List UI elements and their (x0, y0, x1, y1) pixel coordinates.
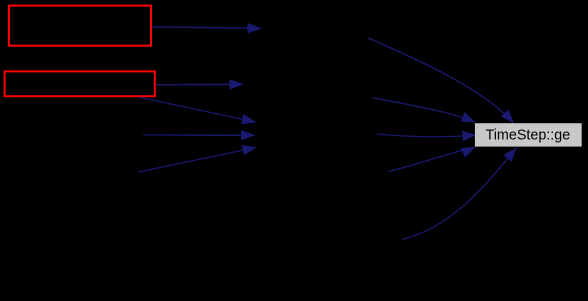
edge box2 to node M2 (156, 79, 244, 90)
edge box1 to node M1 (152, 23, 262, 34)
edge node S3 to node M3 horizontal (143, 130, 255, 141)
edge box2 to node M3 diagonal (140, 97, 257, 124)
edge node M1 to TimeStep top curve (368, 38, 514, 123)
edge node M5 to TimeStep bottom curve (402, 148, 516, 240)
node: red box 1 (truncated caller, top-left) (9, 6, 151, 46)
svg-text:TimeStep::ge: TimeStep::ge (486, 127, 571, 143)
edge node M3 to TimeStep horizontal (377, 131, 477, 142)
node: red box 2 (truncated caller, below) (5, 71, 155, 96)
edge node M4 to TimeStep (388, 147, 475, 172)
edge node M2 to TimeStep (372, 98, 475, 123)
edge node S4 to node M3 diagonal up (138, 145, 256, 172)
node TimeStep::ge (gray filled) (475, 123, 582, 146)
